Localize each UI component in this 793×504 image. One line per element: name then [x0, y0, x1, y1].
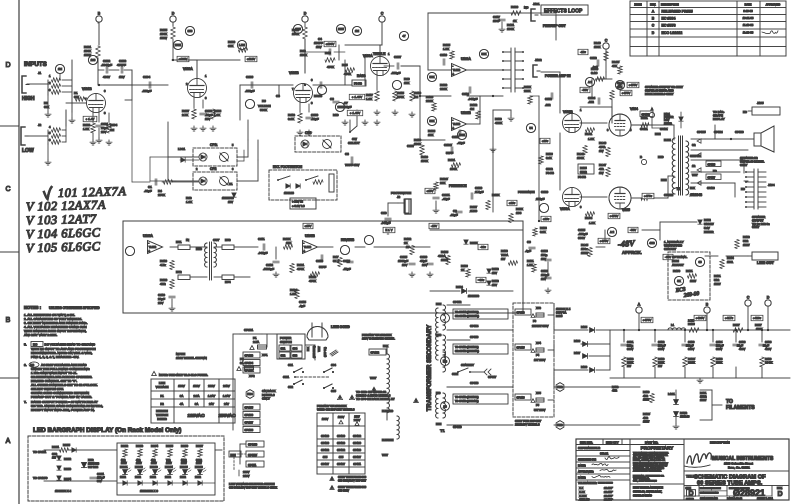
svg-text:BLK/RED: BLK/RED — [382, 409, 393, 413]
svg-text:CP101: CP101 — [660, 128, 668, 131]
svg-text:C132: C132 — [658, 340, 665, 344]
svg-text:MINIMUM: MINIMUM — [156, 409, 168, 413]
ground input pot — [71, 112, 73, 118]
svg-text:-48V: -48V — [617, 238, 636, 249]
vbox -15V — [429, 223, 439, 228]
svg-text:FB FB: FB FB — [354, 82, 362, 86]
pot circled 54 — [526, 123, 535, 132]
resistor R101 100K 1/2W plate — [96, 46, 100, 58]
svg-text:100K: 100K — [414, 142, 421, 146]
wire export fuse outs — [548, 314, 554, 316]
svg-text:FB4: FB4 — [247, 392, 253, 396]
svg-text:C111: C111 — [258, 237, 265, 241]
wire x132 down2 — [131, 100, 133, 182]
T1 winding 3 — [443, 352, 446, 372]
svg-text:220K: 220K — [524, 89, 531, 93]
svg-text:47: 47 — [402, 34, 406, 38]
svg-text:1.5K: 1.5K — [83, 127, 89, 131]
svg-text:1W: 1W — [52, 455, 56, 459]
wire y96 long — [467, 95, 503, 97]
ext footswitch dashed box — [269, 170, 337, 200]
vbox +430V — [694, 315, 706, 320]
gnd psu small rail — [411, 272, 413, 274]
svg-text:2.7K: 2.7K — [688, 319, 694, 323]
circled tap 303 — [441, 357, 450, 366]
svg-text:C: C — [5, 186, 10, 193]
svg-text:D: D — [5, 62, 10, 69]
wire j104 nc — [744, 180, 748, 182]
CP107 boxed — [243, 419, 260, 425]
wire switch to primary — [305, 344, 315, 346]
svg-text:PREAMP OUT: PREAMP OUT — [543, 24, 566, 28]
date signature 2 — [592, 475, 610, 477]
optional hum adjust dashed box — [668, 252, 710, 300]
svg-text:+430V: +430V — [696, 316, 705, 320]
svg-text:C116: C116 — [440, 53, 447, 57]
note 5 dc voltages — [31, 342, 43, 347]
svg-text:+100V: +100V — [326, 42, 335, 46]
reverb transformer right coil — [214, 243, 216, 267]
resistor R158 220K — [622, 357, 626, 367]
node B top — [96, 16, 102, 22]
svg-text:XF5: XF5 — [536, 391, 541, 395]
svg-text:CIRCUIT: CIRCUIT — [664, 247, 676, 251]
wire x548 psu — [547, 262, 549, 275]
svg-text:OUT: OUT — [213, 238, 220, 242]
vbox +473V lower — [608, 213, 620, 218]
vbox +1.4V V101 — [83, 116, 97, 121]
vbox -36V — [478, 244, 488, 249]
footswitch jack body — [329, 174, 334, 192]
pot R19 mid2 — [392, 80, 401, 89]
wire y183 blk — [691, 182, 735, 184]
capacitor C132 — [652, 343, 658, 345]
svg-text:+473V: +473V — [610, 214, 619, 218]
svg-text:J105: J105 — [757, 101, 764, 105]
vbox +475V top — [620, 90, 632, 95]
svg-text:100µF: 100µF — [658, 344, 666, 348]
node B top — [96, 16, 102, 22]
svg-text:.1µF: .1µF — [592, 65, 598, 69]
jack J3 — [404, 199, 409, 213]
svg-text:NC: NC — [743, 110, 747, 114]
T1 primary winding bold 3 — [436, 394, 438, 418]
choke L1 — [668, 328, 686, 330]
diode D107 — [583, 354, 588, 359]
circled tap 303 — [441, 357, 450, 366]
svg-text:REF. DES.: REF. DES. — [580, 440, 593, 444]
svg-text:D107: D107 — [574, 351, 581, 355]
svg-text:DC VOLTAGES READ TO GROUND: DC VOLTAGES READ TO GROUND — [45, 343, 96, 347]
node C supply — [745, 300, 751, 306]
svg-text:PROPRIETARY: PROPRIETARY — [641, 446, 674, 451]
wire x554 secondary outs — [553, 305, 555, 330]
svg-text:J1: J1 — [38, 71, 42, 75]
svg-text:J2: J2 — [38, 123, 42, 127]
ext footswitch dashed box — [269, 170, 337, 200]
date signature 1 — [592, 463, 608, 465]
resistor R109 68K — [197, 59, 240, 61]
T1 winding 4 6.3V — [443, 393, 446, 418]
diode D105 — [590, 328, 595, 333]
wire y160 grnyel — [691, 159, 744, 161]
svg-text:1.8K: 1.8K — [366, 97, 372, 101]
svg-text:240V: 240V — [223, 384, 230, 388]
svg-text:R171: R171 — [686, 269, 693, 273]
circled tap 6.3 — [441, 402, 450, 411]
svg-text:470PF: 470PF — [117, 63, 126, 67]
node C top — [379, 16, 385, 22]
jack line out — [752, 252, 778, 260]
wire y387 filament left — [447, 386, 513, 388]
svg-text:A: A — [651, 107, 653, 111]
vbox +26V b — [541, 216, 551, 221]
svg-text:(EXP BL): (EXP BL) — [324, 347, 327, 357]
svg-text:PRESENCE: PRESENCE — [449, 184, 467, 188]
svg-text:+: + — [148, 250, 150, 254]
opto OP3 dashed box — [295, 136, 341, 152]
svg-text:.022µF: .022µF — [142, 89, 152, 93]
svg-text:ONLY: ONLY — [262, 397, 270, 401]
effects loop label box — [541, 5, 588, 15]
svg-text:NOTE: USE ONLY GLO-BLO FUSES.: NOTE: USE ONLY GLO-BLO FUSES. — [159, 373, 208, 377]
svg-text:OR CP113 (200/240V): OR CP113 (200/240V) — [455, 315, 479, 318]
wire y313 reverb bottom — [123, 312, 523, 314]
svg-text:CP103: CP103 — [321, 434, 329, 438]
svg-text:C: C — [605, 39, 608, 43]
pot treble 250K — [352, 26, 361, 35]
svg-text:250VAC: 250VAC — [218, 413, 236, 418]
wire V102A plate rail — [196, 60, 198, 78]
svg-text:NC: NC — [741, 187, 745, 191]
B+ rail wire — [610, 329, 790, 331]
vbox -15V — [429, 223, 439, 228]
wires effects loop — [467, 69, 503, 71]
svg-text:REV.: REV. — [650, 3, 656, 7]
pot circled 4.3 — [647, 238, 656, 247]
to CP118 box 3 — [453, 394, 508, 404]
CP102 boxed — [369, 349, 386, 355]
node C2 mid — [603, 43, 609, 49]
wire long y13 to effects — [428, 12, 497, 14]
vbox +15V b — [425, 188, 435, 193]
svg-text:1W: 1W — [501, 257, 506, 261]
wire y182 — [132, 181, 150, 183]
wire y85 final — [345, 84, 352, 86]
svg-text:USED ON EXPORT MODELS: USED ON EXPORT MODELS — [317, 408, 355, 412]
svg-text:47Ω: 47Ω — [643, 394, 648, 398]
svg-text:1N52ØØB X 6: 1N52ØØB X 6 — [140, 489, 158, 493]
wire x352 up — [351, 80, 353, 85]
vbox +420V — [751, 315, 763, 320]
svg-text:.1µF: .1µF — [525, 249, 531, 253]
diode D203 — [57, 466, 61, 470]
wire x279 c8 — [278, 85, 280, 97]
svg-text:XF3: XF3 — [536, 306, 541, 310]
svg-text:+470V: +470V — [643, 318, 652, 322]
svg-text:CP106: CP106 — [337, 434, 345, 438]
wire PI to V104 — [580, 122, 607, 124]
size / drawing number / rev row — [698, 486, 700, 497]
svg-text:CP101: CP101 — [244, 328, 254, 332]
wire y203 fs — [388, 202, 398, 204]
ferrite bead BT3 — [222, 245, 234, 250]
export primary table — [316, 413, 318, 474]
vbox +100V — [324, 41, 336, 46]
Music Man logo script — [687, 453, 711, 464]
svg-text:ERNIE BALL, INC. MUSIC MAN IS: ERNIE BALL, INC. MUSIC MAN IS — [633, 467, 665, 470]
svg-text:C138: C138 — [765, 340, 772, 344]
svg-text:.022µF: .022µF — [391, 71, 401, 75]
opamp U102A — [148, 241, 163, 254]
ground V101 cathode — [92, 133, 94, 140]
bargraph inner box — [117, 443, 215, 495]
wire footswitch riser — [349, 120, 351, 132]
svg-text:Ø.1µF: Ø.1µF — [536, 197, 545, 201]
circled 100 callout 3 — [336, 24, 345, 33]
svg-text:750PF 1KV: 750PF 1KV — [345, 163, 359, 167]
svg-text:OP2: OP2 — [210, 167, 217, 171]
wire stage1 to stage2 grid — [132, 84, 168, 86]
svg-text:3.3K: 3.3K — [288, 117, 294, 121]
checked-by signature — [605, 457, 619, 460]
svg-text:100K: 100K — [577, 156, 584, 160]
fb fb boxes — [352, 80, 366, 86]
export fuse dashed box — [513, 303, 554, 417]
svg-text:2K: 2K — [461, 268, 465, 272]
power switch box — [277, 334, 305, 359]
T1 winding HV — [443, 305, 446, 330]
svg-text:BT1: BT1 — [176, 240, 182, 244]
vbox 12V HI — [290, 198, 316, 209]
capacitor C107 .022 — [396, 63, 398, 69]
svg-text:350V: 350V — [627, 347, 633, 351]
wire y60 stage2 — [173, 59, 197, 61]
pot 50K fx1 — [427, 72, 436, 81]
resistor R167 100K — [733, 328, 743, 332]
capacitor C136 — [733, 343, 739, 345]
vbox +430V — [694, 315, 706, 320]
speaker symbol — [754, 133, 761, 146]
svg-text:1.5K: 1.5K — [290, 292, 296, 296]
svg-text:.0033µF: .0033µF — [263, 267, 274, 271]
vbox -50V bias1 — [580, 87, 590, 92]
fb fb boxes — [352, 80, 366, 86]
wire x339 tone — [338, 45, 340, 60]
svg-text:350: 350 — [188, 29, 193, 33]
capacitor C102 .0047uF 400V — [98, 69, 104, 71]
ground reverb 1 — [171, 299, 173, 306]
svg-text:1M: 1M — [355, 29, 360, 33]
svg-text:V102B: V102B — [289, 71, 299, 75]
svg-text:J101: J101 — [533, 2, 540, 6]
OP2 led — [201, 179, 205, 183]
svg-text:1M: 1M — [110, 128, 115, 132]
svg-text:220Ω: 220Ω — [135, 476, 141, 479]
pot bias A2 — [585, 77, 594, 86]
svg-text:C131: C131 — [627, 340, 634, 344]
capacitor C106 .022 — [250, 82, 252, 88]
svg-text:+: + — [452, 127, 454, 131]
svg-text:47Ω: 47Ω — [643, 416, 648, 420]
svg-text:+168V: +168V — [179, 57, 188, 61]
wire y425 filament left — [447, 424, 513, 426]
svg-text:8.1C: 8.1C — [591, 71, 598, 75]
svg-text:R158: R158 — [627, 357, 634, 361]
svg-text:LD2Ø4: LD2Ø4 — [165, 466, 173, 469]
svg-text:D1Ø3: D1Ø3 — [680, 411, 688, 415]
svg-text:CP103: CP103 — [353, 448, 361, 452]
svg-text:ON 60EV: ON 60EV — [338, 488, 349, 492]
diode D203 — [57, 466, 61, 470]
bargraph inner box — [117, 443, 215, 495]
svg-text:BRN: BRN — [436, 303, 441, 306]
svg-text:R15: R15 — [325, 51, 331, 55]
svg-text:1W: 1W — [658, 364, 662, 368]
svg-text:C129: C129 — [541, 190, 549, 194]
svg-text:1W: 1W — [599, 171, 604, 175]
wire y52 tone — [305, 51, 326, 53]
svg-text:ZENER: ZENER — [704, 230, 713, 234]
wire x523 reverb right — [522, 221, 524, 313]
svg-text:CP107: CP107 — [321, 462, 329, 466]
vbox +26V — [507, 200, 517, 205]
pot circled 47 — [615, 80, 624, 89]
svg-text:50V: 50V — [97, 479, 102, 483]
T1 primary winding bold — [436, 308, 438, 337]
wire bargraph bottom — [44, 480, 117, 482]
svg-text:100λ: 100λ — [727, 260, 734, 264]
svg-text:R159: R159 — [658, 357, 665, 361]
circled 100 callout 3 — [336, 24, 345, 33]
capacitor C104 .022uF — [148, 82, 150, 88]
svg-text:47K: 47K — [612, 64, 617, 68]
wire bias row y230b — [642, 229, 660, 231]
svg-text:TL072: TL072 — [453, 122, 461, 126]
svg-text:CP111: CP111 — [248, 463, 257, 467]
wire x560 PI riser — [559, 96, 561, 113]
svg-text:DESCRIPTION: DESCRIPTION — [661, 3, 679, 7]
svg-text:BRN: BRN — [655, 132, 661, 136]
diode D204 — [57, 476, 61, 480]
wire effects loop feed — [497, 12, 533, 14]
capacitor C109 .68 — [306, 116, 312, 118]
svg-text:REV.: REV. — [777, 487, 783, 490]
svg-text:J3: J3 — [397, 195, 401, 199]
svg-text:C106: C106 — [246, 75, 254, 79]
svg-text:-56V: -56V — [630, 228, 636, 232]
svg-text:A: A — [6, 438, 11, 445]
svg-text:D109: D109 — [581, 365, 588, 369]
pot circled 250K — [173, 40, 182, 49]
ground psu x655 — [654, 367, 656, 378]
svg-text:68: 68 — [698, 260, 702, 264]
wire y79 bias — [596, 78, 612, 80]
wire x365 treble — [364, 56, 366, 85]
reverb transformer core — [209, 242, 211, 280]
svg-text:350V: 350V — [716, 347, 722, 351]
svg-text:68K: 68K — [228, 44, 233, 48]
svg-text:FB3: FB3 — [557, 423, 563, 427]
wire grid bus — [62, 79, 72, 81]
wire y221 reverb top — [123, 220, 523, 222]
diode D106 — [583, 342, 588, 347]
svg-text:CP130: CP130 — [735, 130, 744, 134]
wire power row y334 — [262, 333, 277, 335]
wire x388 fs — [387, 203, 389, 216]
opamp U101B TL072 — [452, 118, 467, 131]
svg-text:T2: T2 — [676, 186, 681, 191]
svg-text:120V: 120V — [338, 415, 345, 419]
svg-text:220Ω: 220Ω — [120, 476, 126, 479]
screen resistor bottom — [641, 196, 649, 200]
pot 50K fx1 — [427, 72, 436, 81]
svg-text:47ØK: 47ØK — [495, 121, 502, 125]
wires reverb out — [318, 246, 333, 248]
wire J1 to grid network — [27, 83, 48, 85]
wire x258 sel — [257, 140, 259, 160]
note 5 dc voltages — [31, 342, 43, 347]
svg-text:470K: 470K — [397, 95, 404, 99]
svg-text:-36ν: -36ν — [480, 245, 486, 249]
revision table — [629, 1, 631, 56]
wires opto area — [168, 156, 199, 158]
svg-text:22K: 22K — [440, 181, 445, 185]
svg-text:1N4ØØ3: 1N4ØØ3 — [468, 294, 479, 298]
svg-text:±0.500°: ±0.500° — [604, 498, 613, 502]
wire x648 v104 plate — [631, 124, 648, 126]
vbox +168V — [177, 56, 189, 61]
svg-text:R2Ø2: R2Ø2 — [121, 444, 129, 448]
svg-text:1/2W: 1/2W — [166, 462, 172, 465]
CP122 boxed — [640, 111, 653, 117]
CP122 boxed — [640, 111, 653, 117]
zener ZNR — [81, 462, 86, 467]
zone tick y378 — [0, 377, 19, 379]
svg-text:TO CP118 (100/120V): TO CP118 (100/120V) — [455, 396, 479, 399]
svg-text:1N5062 X 4: 1N5062 X 4 — [556, 307, 571, 311]
title block software file row — [576, 450, 630, 452]
svg-text:D105: D105 — [556, 314, 563, 318]
svg-text:CHART:T.KORTLAND: CHART:T.KORTLAND — [700, 492, 719, 495]
CP115 boxed — [515, 344, 531, 350]
svg-text:Ø18343: Ø18343 — [690, 193, 702, 197]
vbox +15V rail — [303, 223, 313, 228]
svg-text:IN: IN — [186, 238, 189, 242]
wire x420 riser — [419, 66, 421, 140]
svg-text:INPUTS: INPUTS — [24, 61, 47, 68]
pot circled 54 — [526, 123, 535, 132]
CP104 boxed — [243, 367, 260, 373]
capacitor C103 470pF 1KV — [109, 69, 119, 71]
svg-text:.02µF: .02µF — [144, 189, 152, 193]
pot reverb circ — [125, 246, 134, 255]
cathode R102 1.5K — [92, 113, 94, 122]
zone tick y252 — [0, 251, 19, 253]
svg-text:TREBLE: TREBLE — [373, 52, 385, 56]
vbox +1.4V V101 — [83, 116, 97, 121]
reverb enclosure box — [123, 221, 523, 313]
pot circled top — [479, 49, 488, 58]
svg-text:EXCEPT INPUT INTO J102, POWER: EXCEPT INPUT INTO J102, POWER AMP IN. — [31, 408, 95, 412]
svg-text:1M: 1M — [58, 67, 63, 71]
hum pot circle — [674, 276, 683, 285]
svg-text:R131: R131 — [448, 158, 456, 162]
svg-text:+ 8.2V LO: + 8.2V LO — [292, 204, 305, 208]
CP106 boxed — [243, 412, 260, 418]
svg-text:+ 1.40V: + 1.40V — [352, 95, 362, 99]
pot 1M input — [55, 64, 64, 73]
